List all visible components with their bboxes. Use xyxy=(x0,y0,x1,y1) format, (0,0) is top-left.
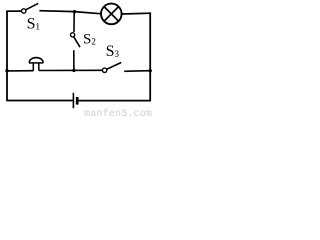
wire top-right segment xyxy=(122,12,150,15)
battery BT1 negative plate xyxy=(76,97,79,105)
switch S2 pivot xyxy=(71,33,75,37)
wire S2 upper vertical xyxy=(73,12,75,32)
junction node C xyxy=(149,69,152,72)
junction node A xyxy=(73,10,76,13)
left rail wire xyxy=(6,11,8,101)
wire middle-right segment xyxy=(124,70,150,73)
switch S3 pivot xyxy=(102,68,106,72)
switch S3 blade xyxy=(107,63,121,70)
junction node on left rail xyxy=(5,69,8,72)
svg-text:S2: S2 xyxy=(83,31,96,47)
bell B1 xyxy=(29,58,44,71)
switch S2 blade xyxy=(74,37,80,48)
wire middle segment xyxy=(39,69,103,71)
wire top-left segment xyxy=(6,10,21,12)
wire top middle segment xyxy=(39,11,100,14)
svg-text:S1: S1 xyxy=(27,15,40,32)
svg-text:manfen5.com: manfen5.com xyxy=(84,108,152,119)
switch S1 pivot xyxy=(22,9,26,13)
wire bottom-right segment xyxy=(79,100,151,102)
right rail wire xyxy=(149,12,151,100)
junction node B xyxy=(72,69,75,72)
switch S1 blade xyxy=(26,3,38,9)
wire S2 lower vertical xyxy=(73,50,75,70)
wire middle-left segment xyxy=(7,70,34,72)
lamp L1 xyxy=(101,4,122,25)
wire bottom-left segment xyxy=(6,100,72,102)
svg-text:S3: S3 xyxy=(106,43,120,60)
battery BT1 positive plate xyxy=(72,93,74,108)
